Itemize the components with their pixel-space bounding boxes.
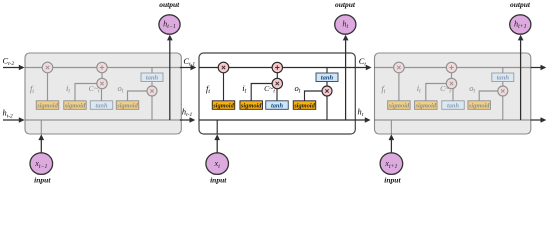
wire C out of right cell (531, 67, 541, 69)
wire C between middle and right cells (355, 67, 366, 69)
input sigmoid gate (cell t-1) (64, 101, 87, 110)
input arrow wire from x node (cell t-1) (40, 140, 42, 153)
forget multiply node (cell t-1) (42, 62, 53, 73)
forget sigmoid gate (cell t+1) (388, 101, 411, 110)
candidate-to-add wire (cell t) (276, 68, 278, 84)
input node x_t−1 (cell t-1) (30, 153, 53, 175)
output multiply node (cell t) (322, 86, 332, 96)
wire h between left and middle cells (180, 119, 191, 121)
input gate wire (cell t-1) (75, 84, 102, 101)
arrowhead h into left cell (19, 117, 25, 123)
hidden state line h (cell t-1) (25, 119, 181, 121)
output node h_t (cell t) (335, 15, 356, 34)
svg-text:tanh: tanh (447, 102, 460, 109)
add node (cell t) (272, 62, 282, 72)
tanh branch wire from C line (cell t) (326, 68, 328, 87)
input arrow wire from x node (cell t) (216, 140, 218, 153)
svg-text:input: input (210, 176, 227, 185)
wire h-line to output node (cell t+1) (520, 40, 522, 120)
input arrow wire from x node (cell t+1) (390, 140, 392, 153)
cell state line C (cell t-1) (25, 67, 181, 69)
arrowhead into cell bottom (cell t) (214, 134, 220, 140)
input multiply node (cell t+1) (446, 78, 456, 88)
arrowhead into output node (cell t+1) (518, 35, 524, 41)
svg-text:tanh: tanh (321, 75, 334, 82)
input stem wire from x into h line (cell t+1) (390, 120, 392, 134)
wire C between left and middle cells (180, 67, 192, 69)
candidate-to-add wire (cell t-1) (101, 68, 103, 84)
candidate tanh gate (cell t-1) (90, 101, 113, 110)
arrowhead C into right cell (366, 65, 372, 71)
arrowhead C into left cell (19, 65, 25, 71)
arrowhead into output node (cell t-1) (167, 35, 173, 41)
svg-text:sigmoid: sigmoid (36, 102, 58, 109)
svg-text:tanh: tanh (146, 75, 159, 82)
forget multiply node (cell t+1) (394, 62, 405, 73)
wire h-line to output node (cell t) (345, 40, 347, 120)
forget sigmoid gate (cell t) (212, 101, 235, 110)
output node h_t+1 (cell t+1) (510, 15, 531, 34)
LSTM cell box (time t) (199, 53, 355, 134)
svg-text:tanh: tanh (95, 102, 108, 109)
input gate wire (cell t) (251, 84, 277, 101)
svg-text:tanh: tanh (271, 102, 284, 109)
output multiply to h line wire (cell t+1) (502, 96, 504, 120)
arrowhead into output node (cell t) (343, 35, 349, 41)
output gate wire (cell t) (305, 91, 328, 101)
input sigmoid gate (cell t+1) (414, 101, 437, 110)
svg-text:output: output (159, 0, 180, 9)
arrowhead into cell bottom (cell t-1) (38, 134, 44, 140)
state tanh box (cell t) (316, 73, 338, 82)
add node (cell t-1) (97, 62, 107, 72)
input multiply node (cell t) (272, 78, 282, 88)
cell state line C (cell t+1) (375, 67, 531, 69)
forget gate wire (cell t) (223, 68, 225, 101)
svg-text:output: output (510, 0, 531, 9)
svg-text:sigmoid: sigmoid (116, 102, 138, 109)
svg-text:input: input (384, 176, 401, 185)
svg-text:output: output (335, 0, 356, 9)
svg-text:sigmoid: sigmoid (468, 102, 490, 109)
arrowhead C output (541, 65, 547, 71)
svg-text:sigmoid: sigmoid (212, 102, 234, 109)
candidate tanh gate (cell t) (266, 101, 289, 110)
svg-text:sigmoid: sigmoid (388, 102, 410, 109)
output multiply node (cell t-1) (147, 86, 157, 96)
forget sigmoid gate (cell t-1) (36, 101, 59, 110)
tanh branch wire from C line (cell t-1) (151, 68, 153, 87)
forget gate wire (cell t+1) (398, 68, 400, 101)
candidate-to-add wire (cell t+1) (451, 68, 453, 84)
output node h_t−1 (cell t-1) (159, 15, 180, 34)
input gate wire (cell t+1) (426, 84, 452, 101)
output gate wire (cell t-1) (128, 91, 153, 101)
output multiply to h line wire (cell t) (326, 96, 328, 120)
wire h state into left cell (3, 119, 20, 121)
input stem wire from x into h line (cell t) (216, 120, 218, 134)
LSTM cell box (time t+1) (375, 53, 531, 134)
wire h-line to output node (cell t-1) (169, 40, 171, 120)
wire C state into left cell (3, 67, 20, 69)
svg-text:tanh: tanh (497, 75, 510, 82)
input stem wire from x into h line (cell t-1) (40, 120, 42, 134)
arrowhead C into middle cell (191, 65, 197, 71)
candidate gate wire (cell t) (276, 84, 278, 101)
state tanh box (cell t+1) (492, 73, 514, 82)
input sigmoid gate (cell t) (240, 101, 263, 110)
candidate gate wire (cell t-1) (101, 84, 103, 101)
output sigmoid gate (cell t+1) (468, 101, 491, 110)
input multiply node (cell t-1) (97, 78, 107, 88)
add node (cell t+1) (446, 62, 456, 72)
tanh branch wire from C line (cell t+1) (502, 68, 504, 87)
hidden state line h (cell t) (199, 119, 355, 121)
svg-text:sigmoid: sigmoid (414, 102, 436, 109)
output multiply to h line wire (cell t-1) (151, 96, 153, 120)
arrowhead into cell bottom (cell t+1) (389, 134, 395, 140)
svg-text:sigmoid: sigmoid (293, 102, 315, 109)
arrowhead h into right cell (365, 117, 371, 123)
hidden state line h (cell t+1) (375, 119, 531, 121)
arrowhead h output (541, 117, 547, 123)
input node x_t (cell t) (206, 153, 229, 175)
forget multiply node (cell t) (218, 62, 229, 73)
input node x_t+1 (cell t+1) (380, 153, 403, 175)
svg-text:input: input (34, 176, 51, 185)
svg-text:sigmoid: sigmoid (64, 102, 86, 109)
output sigmoid gate (cell t) (293, 101, 316, 110)
wire h between middle and right cells (355, 119, 365, 121)
candidate tanh gate (cell t+1) (442, 101, 465, 110)
svg-text:sigmoid: sigmoid (240, 102, 262, 109)
wire h out of right cell (531, 119, 541, 121)
output gate wire (cell t+1) (479, 91, 503, 101)
forget gate wire (cell t-1) (47, 68, 49, 101)
output multiply node (cell t+1) (498, 86, 508, 96)
arrowhead h into middle cell (190, 117, 196, 123)
output sigmoid gate (cell t-1) (116, 101, 139, 110)
candidate gate wire (cell t+1) (452, 84, 454, 101)
state tanh box (cell t-1) (141, 73, 163, 82)
cell state line C (cell t) (199, 67, 355, 69)
LSTM cell box (time t-1) (25, 53, 181, 134)
